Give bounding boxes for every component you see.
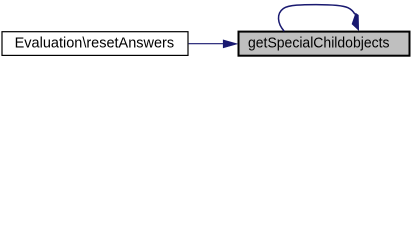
svg-text:getSpecialChildobjects: getSpecialChildobjects	[248, 36, 390, 52]
edge Evaluation\resetAnswers -> getSpecialChildobjects	[189, 40, 238, 48]
svg-text:Evaluation\resetAnswers: Evaluation\resetAnswers	[15, 36, 175, 52]
node getSpecialChildobjects	[239, 32, 410, 56]
self-loop edge getSpecialChildobjects -> getSpecialChildobjects	[278, 5, 358, 32]
node Evaluation\resetAnswers	[2, 32, 188, 56]
